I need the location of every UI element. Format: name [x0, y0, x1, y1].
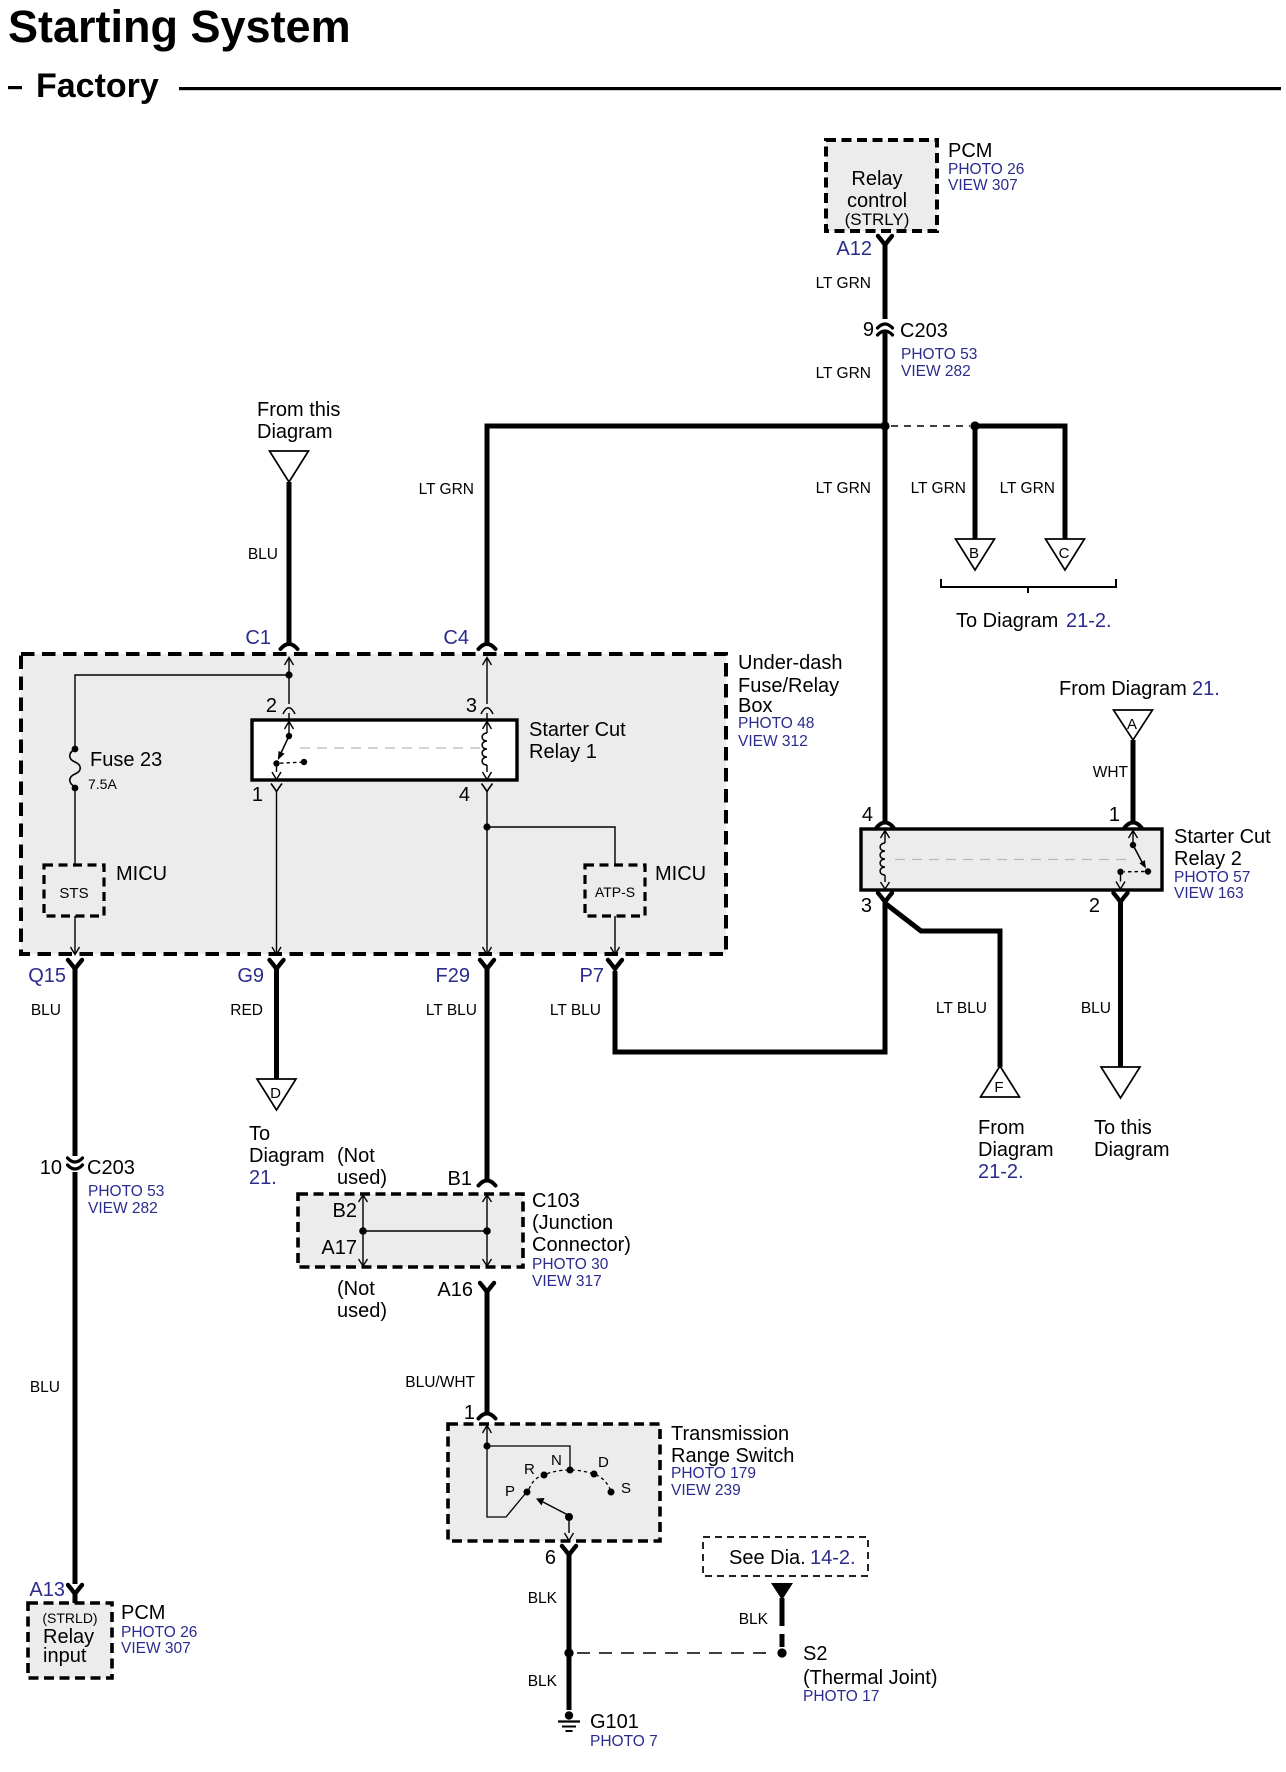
- relay1 pin4 female stub: [482, 784, 493, 792]
- svg-text:C4: C4: [443, 627, 469, 649]
- svg-text:(Not: (Not: [337, 1278, 375, 1300]
- svg-text:7.5A: 7.5A: [88, 776, 117, 792]
- svg-text:PCM: PCM: [948, 140, 992, 162]
- svg-text:G9: G9: [237, 965, 264, 987]
- subtitle dash: [8, 86, 22, 89]
- svg-text:S2: S2: [803, 1643, 827, 1665]
- svg-text:(STRLD): (STRLD): [42, 1610, 97, 1626]
- svg-text:3: 3: [861, 895, 872, 917]
- svg-text:21-2.: 21-2.: [1066, 610, 1112, 632]
- starter cut relay 1 box: [252, 720, 517, 780]
- relay1 coil: [482, 722, 491, 780]
- wire junction to C triangle: [975, 426, 1065, 539]
- TRS contact R: [541, 1472, 548, 1479]
- svg-text:Fuse/Relay: Fuse/Relay: [738, 675, 839, 697]
- wire triangle to C1 (BLU): [287, 482, 292, 645]
- diagram ref triangle (unlabeled): [270, 451, 309, 482]
- svg-text:(Junction: (Junction: [532, 1212, 613, 1234]
- svg-text:Under-dash: Under-dash: [738, 652, 843, 674]
- caption To this Diagram: [1094, 1117, 1170, 1161]
- svg-text:used): used): [337, 1167, 387, 1189]
- svg-text:C103: C103: [532, 1190, 580, 1212]
- svg-text:BLU/WHT: BLU/WHT: [405, 1374, 475, 1391]
- arrow into box at C1: [285, 658, 294, 666]
- svg-text:Fuse 23: Fuse 23: [90, 749, 162, 771]
- label C203 PHOTO 53 VIEW 282: [900, 320, 977, 380]
- wire relay1 pin4 to F29: [486, 791, 488, 953]
- svg-text:Q15: Q15: [28, 965, 66, 987]
- svg-text:BLK: BLK: [739, 1611, 769, 1628]
- node junction right: [970, 421, 979, 430]
- relay2 switch: [1116, 831, 1151, 890]
- label G101 PHOTO 7: [590, 1711, 658, 1750]
- C103 left leg B2-A17: [359, 1195, 368, 1266]
- wire relay1 pin1 to G9: [276, 791, 278, 953]
- svg-text:Starter Cut: Starter Cut: [529, 719, 626, 741]
- connector C203 pin 9 (double arc up): [878, 324, 893, 335]
- svg-text:BLK: BLK: [528, 1673, 558, 1690]
- wire relay2 pin2 down (BLU): [1118, 901, 1123, 1067]
- TRS contact N: [567, 1467, 574, 1474]
- svg-text:A17: A17: [321, 1237, 357, 1259]
- svg-text:VIEW 317: VIEW 317: [532, 1273, 602, 1290]
- see diagram 14-2 box: [703, 1537, 868, 1576]
- ground G101: [558, 1711, 580, 1731]
- dashed link to S2: [577, 1652, 774, 1654]
- caption To Diagram 21.: [249, 1123, 325, 1189]
- svg-text:Box: Box: [738, 695, 772, 717]
- svg-text:PHOTO 53: PHOTO 53: [901, 346, 977, 363]
- wire A to relay2 pin1 (WHT): [1131, 740, 1136, 824]
- relay1 pin1 female stub: [271, 784, 282, 792]
- svg-text:BLU: BLU: [248, 546, 278, 563]
- svg-text:See Dia.: See Dia.: [729, 1547, 806, 1569]
- svg-text:P7: P7: [580, 965, 604, 987]
- svg-text:Diagram: Diagram: [249, 1145, 325, 1167]
- svg-text:F29: F29: [436, 965, 470, 987]
- wire STS to Q15: [74, 916, 76, 953]
- svg-text:LT GRN: LT GRN: [1000, 480, 1055, 497]
- svg-text:From Diagram: From Diagram: [1059, 678, 1187, 700]
- starter cut relay 2 box: [861, 829, 1162, 890]
- label PCM (bottom): [121, 1602, 197, 1657]
- svg-text:4: 4: [862, 804, 873, 826]
- svg-text:RED: RED: [230, 1002, 263, 1019]
- svg-text:Starter Cut: Starter Cut: [1174, 826, 1271, 848]
- node C1/fuse tap: [285, 671, 292, 678]
- svg-text:VIEW 307: VIEW 307: [121, 1640, 191, 1657]
- arrow at box edge G9: [272, 947, 281, 955]
- svg-text:A: A: [1127, 716, 1137, 733]
- svg-text:2: 2: [266, 695, 277, 717]
- svg-text:From this: From this: [257, 399, 340, 421]
- title rule: [179, 87, 1281, 90]
- svg-text:N: N: [551, 1452, 562, 1469]
- svg-text:To: To: [249, 1123, 270, 1145]
- caption (Not used) upper: [337, 1145, 387, 1189]
- label C103 Junction Connector: [532, 1190, 631, 1290]
- label Transmission Range Switch: [671, 1423, 794, 1499]
- svg-text:Diagram: Diagram: [1094, 1139, 1170, 1161]
- svg-text:LT BLU: LT BLU: [550, 1002, 601, 1019]
- S2 feed arrow (filled triangle): [771, 1583, 793, 1600]
- node pin4 tap: [483, 823, 490, 830]
- svg-text:PHOTO 26: PHOTO 26: [948, 161, 1024, 178]
- TRS contact P: [524, 1489, 531, 1496]
- svg-text:PHOTO 48: PHOTO 48: [738, 715, 814, 732]
- wire G9 to D triangle (RED): [274, 968, 279, 1079]
- svg-text:(Thermal Joint): (Thermal Joint): [803, 1667, 937, 1689]
- label Starter Cut Relay 2: [1174, 826, 1271, 902]
- svg-text:VIEW 312: VIEW 312: [738, 733, 808, 750]
- svg-text:21.: 21.: [1192, 678, 1220, 700]
- svg-text:VIEW 239: VIEW 239: [671, 1482, 741, 1499]
- svg-text:PHOTO 53: PHOTO 53: [88, 1183, 164, 1200]
- relay1 switch: [272, 722, 307, 780]
- wire A16 to TRS pin1 (BLU/WHT): [485, 1291, 490, 1415]
- C103 right leg B1-A16: [483, 1195, 492, 1266]
- svg-text:1: 1: [252, 784, 263, 806]
- svg-text:PHOTO 17: PHOTO 17: [803, 1688, 879, 1705]
- connector TRS pin1 (male cap): [479, 1414, 496, 1419]
- connector P7 (female Y): [608, 960, 622, 969]
- wire A12 to C203 (LT GRN): [883, 244, 888, 319]
- svg-text:B: B: [969, 545, 979, 562]
- svg-text:3: 3: [466, 695, 477, 717]
- svg-text:21-2.: 21-2.: [978, 1161, 1024, 1183]
- label Starter Cut Relay 1: [529, 719, 626, 763]
- svg-text:control: control: [847, 190, 907, 212]
- svg-text:Relay 1: Relay 1: [529, 741, 597, 763]
- wire A13 stub: [73, 1593, 78, 1603]
- TRS contact D: [591, 1471, 598, 1478]
- arrow at box edge P7: [611, 947, 620, 955]
- wire C4 to relay1 pin3: [486, 658, 488, 720]
- wire ATP-S to P7: [614, 916, 616, 953]
- svg-text:LT BLU: LT BLU: [936, 1000, 987, 1017]
- wire F29 to B1 (LT BLU): [485, 968, 490, 1182]
- svg-text:B1: B1: [448, 1168, 472, 1190]
- svg-text:To Diagram: To Diagram: [956, 610, 1058, 632]
- TRS pin1 inner lead: [483, 1426, 492, 1450]
- node junction left: [880, 421, 889, 430]
- relay1 chevron pin2: [283, 708, 295, 714]
- svg-text:D: D: [598, 1454, 609, 1471]
- diagram ref triangle F: [981, 1066, 1020, 1097]
- label Fuse 23 7.5A: [88, 749, 162, 792]
- svg-text:10: 10: [40, 1157, 62, 1179]
- svg-text:VIEW 282: VIEW 282: [901, 363, 971, 380]
- node S2: [777, 1648, 786, 1657]
- transmission range switch box: [448, 1424, 660, 1541]
- wire junction to relay2 pin4: [883, 426, 888, 824]
- svg-text:To this: To this: [1094, 1117, 1152, 1139]
- under-dash fuse/relay box: [21, 654, 726, 954]
- svg-text:BLK: BLK: [528, 1590, 558, 1607]
- svg-text:input: input: [43, 1645, 87, 1667]
- svg-text:From: From: [978, 1117, 1025, 1139]
- arrow at box edge F29: [483, 947, 492, 955]
- svg-text:A16: A16: [437, 1279, 473, 1301]
- svg-text:C1: C1: [245, 627, 271, 649]
- C103 junction connector box: [298, 1194, 523, 1267]
- wire junction to B triangle: [973, 426, 978, 539]
- svg-text:R: R: [524, 1461, 535, 1478]
- TRS link to P contact: [487, 1446, 525, 1517]
- connector C1 (male cap): [281, 644, 298, 649]
- connector relay2 pin3 (female Y): [878, 893, 892, 902]
- svg-text:S: S: [621, 1480, 631, 1497]
- svg-text:Relay 2: Relay 2: [1174, 848, 1242, 870]
- svg-text:D: D: [270, 1085, 281, 1102]
- caption From Diagram 21.: [1059, 678, 1220, 700]
- wire junction to C4: [487, 426, 885, 645]
- wire relay2 pin3 diagonal to F (LT BLU): [886, 904, 1000, 1067]
- svg-text:PHOTO 7: PHOTO 7: [590, 1733, 658, 1750]
- svg-text:LT GRN: LT GRN: [816, 275, 871, 292]
- svg-text:STS: STS: [59, 885, 88, 902]
- svg-text:BLU: BLU: [30, 1379, 60, 1396]
- MICU STS box: [44, 865, 104, 916]
- svg-text:(Not: (Not: [337, 1145, 375, 1167]
- svg-text:LT BLU: LT BLU: [426, 1002, 477, 1019]
- wire pin6 to G101 node (BLK): [567, 1554, 572, 1649]
- svg-text:VIEW 282: VIEW 282: [88, 1200, 158, 1217]
- caption From Diagram 21-2.: [978, 1117, 1054, 1183]
- wire S2 (BLK, broken): [780, 1598, 785, 1647]
- PCM relay-input box (STRLD): [28, 1603, 112, 1678]
- svg-text:Transmission: Transmission: [671, 1423, 789, 1445]
- connector G9 (female Y): [270, 960, 284, 969]
- node G101 junction: [564, 1648, 573, 1657]
- svg-text:2: 2: [1089, 895, 1100, 917]
- label S2 Thermal Joint: [803, 1643, 937, 1705]
- relay2 internal dashed line: [895, 859, 1128, 861]
- connector B1 (male cap): [479, 1181, 496, 1186]
- C103 cross link: [363, 1230, 487, 1232]
- svg-text:P: P: [505, 1483, 515, 1500]
- TRS link to N contact: [487, 1446, 570, 1467]
- svg-text:Starting System: Starting System: [8, 1, 351, 52]
- TRS wiper arm: [536, 1498, 573, 1521]
- svg-text:6: 6: [545, 1547, 556, 1569]
- svg-text:LT GRN: LT GRN: [816, 480, 871, 497]
- relay1 internal dashed line: [300, 747, 483, 749]
- svg-text:(STRLY): (STRLY): [845, 210, 910, 229]
- connector A16 (female Y): [480, 1283, 494, 1292]
- diagram ref triangle D: [257, 1079, 296, 1110]
- diagram ref triangle To this Diagram: [1101, 1067, 1140, 1098]
- svg-text:1: 1: [464, 1402, 475, 1424]
- svg-text:BLU: BLU: [1081, 1000, 1111, 1017]
- wire C203 pin10 to A13 (BLU): [73, 1172, 78, 1584]
- wire C203 to junction (LT GRN): [883, 332, 888, 426]
- connector A13 (female Y): [68, 1585, 82, 1594]
- svg-text:14-2.: 14-2.: [810, 1547, 856, 1569]
- svg-text:MICU: MICU: [116, 863, 167, 885]
- svg-text:LT GRN: LT GRN: [816, 365, 871, 382]
- relay2 coil: [880, 831, 889, 890]
- wire C1 to relay1 pin2: [288, 658, 290, 720]
- wire relay2 pin3 down to P7 link: [615, 903, 885, 1052]
- svg-text:PHOTO 30: PHOTO 30: [532, 1256, 609, 1273]
- svg-text:A13: A13: [29, 1579, 65, 1601]
- svg-text:PCM: PCM: [121, 1602, 165, 1624]
- TRS common lead to pin6: [565, 1517, 574, 1541]
- connector C203 pin 10 (double arc down): [68, 1158, 83, 1169]
- svg-text:WHT: WHT: [1093, 764, 1129, 781]
- svg-text:Connector): Connector): [532, 1234, 631, 1256]
- svg-text:9: 9: [863, 319, 874, 341]
- caption (Not used) lower: [337, 1278, 387, 1322]
- wire Q15 to C203 pin10 (BLU): [73, 968, 78, 1156]
- svg-text:Relay: Relay: [851, 168, 902, 190]
- caption To Diagram 21-2.: [956, 610, 1112, 632]
- svg-text:A12: A12: [836, 238, 872, 260]
- svg-text:C203: C203: [900, 320, 948, 342]
- PCM relay-control box (STRLY): [826, 140, 937, 231]
- connector relay2 pin4 (male cap): [877, 823, 894, 828]
- svg-text:PHOTO 57: PHOTO 57: [1174, 869, 1250, 886]
- wire tap to fuse 23: [75, 675, 289, 749]
- svg-text:PHOTO 26: PHOTO 26: [121, 1624, 197, 1641]
- connector C4 (male cap): [479, 644, 496, 649]
- svg-text:1: 1: [1109, 804, 1120, 826]
- relay1 chevron pin3: [481, 708, 493, 714]
- svg-text:Diagram: Diagram: [257, 421, 333, 443]
- svg-text:MICU: MICU: [655, 863, 706, 885]
- svg-text:B2: B2: [333, 1200, 357, 1222]
- svg-text:BLU: BLU: [31, 1002, 61, 1019]
- svg-text:C: C: [1059, 545, 1070, 562]
- connector TRS pin6 (female Y): [562, 1546, 576, 1555]
- connector F29 (female Y): [480, 960, 494, 969]
- svg-text:PHOTO 179: PHOTO 179: [671, 1465, 756, 1482]
- svg-text:C203: C203: [87, 1157, 135, 1179]
- caption From this Diagram: [257, 399, 340, 443]
- TRS dashed arc P-R-N-D-S: [529, 1470, 610, 1489]
- svg-text:Factory: Factory: [36, 67, 159, 105]
- label Under-dash Fuse/Relay Box: [738, 652, 843, 750]
- label C203 PHOTO 53 VIEW 282 (lower): [87, 1157, 164, 1217]
- svg-text:VIEW 163: VIEW 163: [1174, 885, 1244, 902]
- connector A12 (female Y): [878, 236, 892, 245]
- svg-text:Diagram: Diagram: [978, 1139, 1054, 1161]
- wire node to ground: [567, 1657, 572, 1710]
- diagram ref triangle A: [1114, 710, 1153, 740]
- arrow at box edge Q15: [71, 947, 80, 955]
- connector relay2 pin1 (male cap): [1125, 823, 1142, 828]
- bracket under B and C: [941, 579, 1116, 593]
- svg-text:ATP-S: ATP-S: [595, 884, 635, 900]
- connector Q15 (female Y): [68, 960, 82, 969]
- svg-text:LT GRN: LT GRN: [911, 480, 966, 497]
- svg-text:4: 4: [459, 784, 470, 806]
- svg-text:used): used): [337, 1300, 387, 1322]
- label PCM (top): [948, 140, 1024, 194]
- wire fuse to STS: [74, 788, 76, 865]
- fuse 23 element: [70, 746, 81, 792]
- wire tap to ATP-S: [487, 827, 615, 865]
- svg-text:21.: 21.: [249, 1167, 277, 1189]
- svg-text:G101: G101: [590, 1711, 639, 1733]
- connector relay2 pin2 (female Y): [1114, 893, 1128, 902]
- svg-text:Range Switch: Range Switch: [671, 1445, 794, 1467]
- arrow into box at C4: [483, 658, 492, 666]
- svg-text:LT GRN: LT GRN: [419, 481, 474, 498]
- dashed link between junction nodes: [891, 425, 970, 427]
- diagram ref triangle B: [956, 539, 995, 570]
- MICU ATP-S box: [585, 865, 645, 916]
- TRS contact S: [608, 1489, 615, 1496]
- svg-text:VIEW 307: VIEW 307: [948, 177, 1018, 194]
- svg-text:F: F: [994, 1079, 1003, 1096]
- diagram ref triangle C: [1046, 539, 1085, 570]
